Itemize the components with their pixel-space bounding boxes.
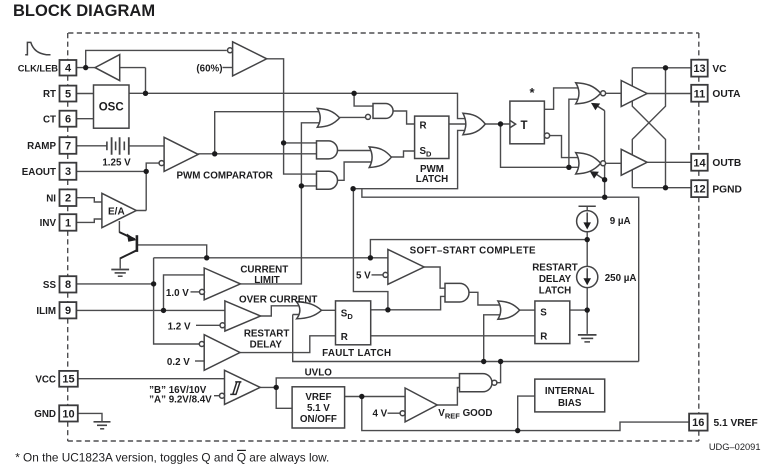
wire: VREF routing to pin 16 [362,397,689,431]
wire: fault net jog to lower distribution line [362,189,639,362]
svg-text:EAOUT: EAOUT [22,167,56,178]
hysteresis symbol [230,382,241,395]
svg-text:5: 5 [65,88,71,100]
wire: AND1 output to S_D OR [337,150,372,152]
svg-text:CT: CT [43,114,56,125]
wire: restart OR output to latch S [520,309,535,311]
wire: VC rail [632,68,691,87]
OR gate G6 (latch output or) [463,113,485,135]
wire: SS pin to node [76,283,153,285]
comparator 60% duty clamp [233,42,267,76]
wire: crossover rails [632,68,665,188]
svg-text:VC: VC [712,64,727,75]
OR gate G11 (restart set or) [498,301,520,319]
svg-text:7: 7 [65,140,71,152]
wire: ILIM line to over current comparator [76,309,225,311]
wire: GND pin to ground [76,413,102,421]
IC boundary dashed border [68,33,699,441]
wire: fault net feedback line to OR3 [353,130,466,188]
wire: E/A emitter to clamp transistor [118,221,120,233]
svg-text:8: 8 [65,279,71,291]
svg-text:5.1 V: 5.1 V [307,403,330,414]
PWM latch [415,116,449,158]
wire: RT pin to OSC [76,93,93,95]
OR gate G9 (fault set or) [297,302,322,319]
svg-text:GND: GND [34,409,56,420]
svg-text:ON/OFF: ON/OFF [300,414,337,425]
wire: 4V label to bubble [388,412,401,414]
wire: S_D OR output to PWM latch S_D [391,151,414,157]
svg-text:RESTART: RESTART [244,329,290,340]
svg-text:VREF GOOD: VREF GOOD [438,408,492,421]
wire: AND2 output to S_D OR [337,162,372,180]
wire: PWM signal down to output NOR gates [501,99,579,167]
wire: battery to PWM comparator [129,145,164,147]
VREF 5.1V ON/OFF block [292,387,345,428]
svg-text:3: 3 [65,166,71,178]
svg-text:”A” 9.2V/8.4V: ”A” 9.2V/8.4V [149,394,212,405]
svg-text:R: R [540,332,547,343]
wire: OR1 output to NAND bubble [340,116,366,118]
svg-text:10: 10 [62,408,74,420]
wire: SS branch up to current sources [370,240,587,258]
wire: top NOR output to driver A [605,92,621,94]
comparator soft-start complete 5V [388,249,424,284]
svg-text:E/A: E/A [108,206,125,217]
svg-text:1.0 V: 1.0 V [166,288,189,299]
wire: NAND output to PWM latch R [393,111,415,124]
OSC block [94,85,130,128]
svg-text:RESTART: RESTART [532,263,578,274]
OR gate G5 (PWM set or) [369,147,391,168]
wire: 0.2V label to comparator [195,360,204,362]
svg-text:LATCH: LATCH [416,174,448,185]
svg-text:R: R [420,120,427,131]
svg-text:15: 15 [62,374,74,386]
ground (transistor) [111,270,129,277]
svg-text:CURRENT: CURRENT [240,265,288,276]
fault latch [336,301,371,345]
wire: restart delay comparator output to fault latch R [240,336,336,353]
svg-text:UVLO: UVLO [305,367,333,378]
svg-text:250 µA: 250 µA [605,273,637,284]
comparator UVLO hysteresis [225,370,261,404]
svg-text:5.1 VREF: 5.1 VREF [714,418,758,429]
wire: over current comparator output to OR [261,306,301,316]
svg-text:6: 6 [65,114,71,126]
wire: pin4 to clock buffer [76,67,95,69]
buffer U2 (clock buffer) [95,55,120,81]
wire: current limit output up to OR1 and AND2 [240,123,320,284]
wire: OSC output line to PWM-latch OR [129,93,466,118]
NAND gate G12 (uvlo qualify) [460,374,493,392]
transistor Q1 (soft-start clamp) [119,232,136,258]
wire: transistor base to SS line [137,245,207,258]
wire: EAOUT line and branch to PWM comparator inverting input [76,163,158,210]
svg-text:1.2 V: 1.2 V [168,322,191,333]
svg-text:DELAY: DELAY [539,274,572,285]
wire: OSC clock branch to NAND input [354,93,375,106]
pin names left [18,63,59,420]
wire: fault latch lower output to restart latch R [371,335,535,337]
wire: PWM comparator output to AND1 and up to OR1 [198,112,320,154]
current source 250uA [577,266,598,287]
wire: 1.2V label to bubble [196,324,220,326]
svg-text:FAULT LATCH: FAULT LATCH [322,348,391,359]
svg-text:OVER CURRENT: OVER CURRENT [239,294,317,305]
svg-text:T: T [521,120,528,132]
T flip-flop [510,101,545,144]
wire: 60% comparator output down to AND gates [267,59,319,174]
wire: A-threshold label to bubble [214,395,219,397]
AND gate G10 (restart qualify) [445,283,469,302]
wire: INV pin to E/A [76,219,102,222]
wire: T Q output to top NOR [544,88,578,109]
wire: VCC pin to UVLO comparator [78,378,225,380]
svg-text:5 V: 5 V [356,270,371,281]
current source 9uA [579,205,596,207]
wire: UVLO distribution to over current OR [293,315,639,362]
svg-text:RAMP: RAMP [27,141,56,152]
wire: VREF good comparator output to NAND [437,388,461,406]
svg-text:NI: NI [46,193,56,204]
NAND gate G2 (clock gating) [373,104,393,119]
svg-text:UDG–02091: UDG–02091 [709,442,761,452]
wire: NI pin to E/A [76,198,102,202]
svg-text:OSC: OSC [99,102,124,114]
svg-text:1: 1 [65,217,71,229]
AND gate G3 [317,141,338,159]
wire: fault latch output up to PWM S_D OR [353,189,388,310]
svg-text:0.2 V: 0.2 V [167,357,190,368]
AND gate G4 [317,171,338,189]
svg-text:13: 13 [693,63,705,75]
wire: ILIM branch to current limit comparator [164,275,205,311]
wire: VREF output to 4V comparator [345,396,406,398]
wire: (60%) label to comparator [223,67,233,69]
wire: fault latch output to soft-start AND [371,296,446,309]
wire: buffer input from osc output node [120,68,146,94]
svg-text:VCC: VCC [35,374,56,385]
restart delay latch [535,301,570,344]
comparator VREF good 4V [405,388,437,422]
footnote Q overline [237,449,246,451]
svg-text:11: 11 [694,88,706,100]
wire: bottom NOR output to driver B [605,162,621,164]
svg-text:16: 16 [692,417,704,429]
wire: AND output to restart OR [469,292,501,305]
wire: transistor collector to ground [119,258,121,269]
svg-text:9: 9 [65,305,71,317]
svg-text:INV: INV [40,218,57,229]
wire: current source chain [586,206,588,334]
wire: OR3 output to T flip-flop [485,123,510,125]
svg-text:LIMIT: LIMIT [254,275,280,286]
wire: over current OR output to fault latch [322,309,336,311]
svg-text:12: 12 [693,184,705,196]
error amp E/A [102,193,136,227]
svg-text:SOFT–START COMPLETE: SOFT–START COMPLETE [410,245,536,256]
wire: SS node line to soft-start comparator [154,258,388,344]
wire: PWM latch output to OR3 [449,123,466,125]
svg-text:2: 2 [65,193,71,205]
wire: restart latch S output to discharge node [570,309,587,311]
comparator over current 1.2V [225,301,261,331]
svg-text:RT: RT [43,89,56,100]
svg-text:ILIM: ILIM [36,306,56,317]
svg-text:VREF: VREF [305,392,331,403]
svg-text:14: 14 [693,157,706,169]
svg-text:* On the UC1823A version, togg: * On the UC1823A version, toggles Q and … [15,451,329,465]
wire: RAMP pin to battery [76,145,107,147]
wire: PGND rail [632,187,691,189]
svg-text:*: * [530,85,536,100]
svg-text:PGND: PGND [712,185,741,196]
wire: shutdown vertical to NOR gates [604,111,606,197]
svg-text:SS: SS [43,280,57,291]
battery 1.25V [107,137,129,154]
wire: OUTA line [647,93,691,95]
wire: UVLO line up to restart OR [484,315,501,362]
shutdown arrows into NOR gates [598,106,605,110]
svg-text:S: S [540,307,547,318]
svg-text:DELAY: DELAY [250,340,283,351]
driver A [621,81,647,107]
wire: CT pin to OSC [76,118,93,120]
svg-text:LATCH: LATCH [539,286,571,297]
svg-text:OUTB: OUTB [712,158,741,169]
PWM comparator [164,137,198,171]
svg-text:PWM COMPARATOR: PWM COMPARATOR [177,171,273,182]
wire: NAND output up to UVLO line [497,362,501,383]
svg-text:9 µA: 9 µA [610,216,631,227]
INTERNAL BIAS block [535,379,605,412]
svg-text:BLOCK DIAGRAM: BLOCK DIAGRAM [13,2,155,20]
svg-text:INTERNAL: INTERNAL [545,386,595,397]
wire: UVLO output branches [260,378,461,408]
svg-text:CLK/LEB: CLK/LEB [18,63,59,73]
comparator restart delay 0.2V [204,335,240,371]
svg-text:BIAS: BIAS [558,398,582,409]
ground (GND pin) [94,422,111,429]
ground (restart delay) [578,335,597,342]
waveform CLK/LEB symbol [25,42,50,54]
driver B [621,149,647,175]
wire: clock node up to 60% comparator input [86,50,227,67]
wire: soft-start comparator output to AND [424,267,446,288]
svg-text:1.25 V: 1.25 V [102,157,131,168]
svg-text:R: R [341,332,348,343]
wire: T Qbar output to bottom NOR [549,136,578,158]
NOR gate G7 (output A gate) [576,83,601,104]
svg-text:4 V: 4 V [372,409,387,420]
NOR gate G8 (output B gate) [576,153,601,174]
svg-text:4: 4 [65,63,72,75]
wire: OUTB line [647,161,691,163]
svg-text:(60%): (60%) [196,63,222,74]
svg-text:OUTA: OUTA [712,89,741,100]
pin boxes [59,60,708,431]
wire: VREF tap to internal bias [518,396,535,431]
comparator current limit 1.0V [204,268,240,300]
wire: 5V label to bubble [372,274,384,276]
OR gate G1 (PWM reset or) [317,108,339,127]
wire: 1.0V label to bubble [191,291,200,293]
